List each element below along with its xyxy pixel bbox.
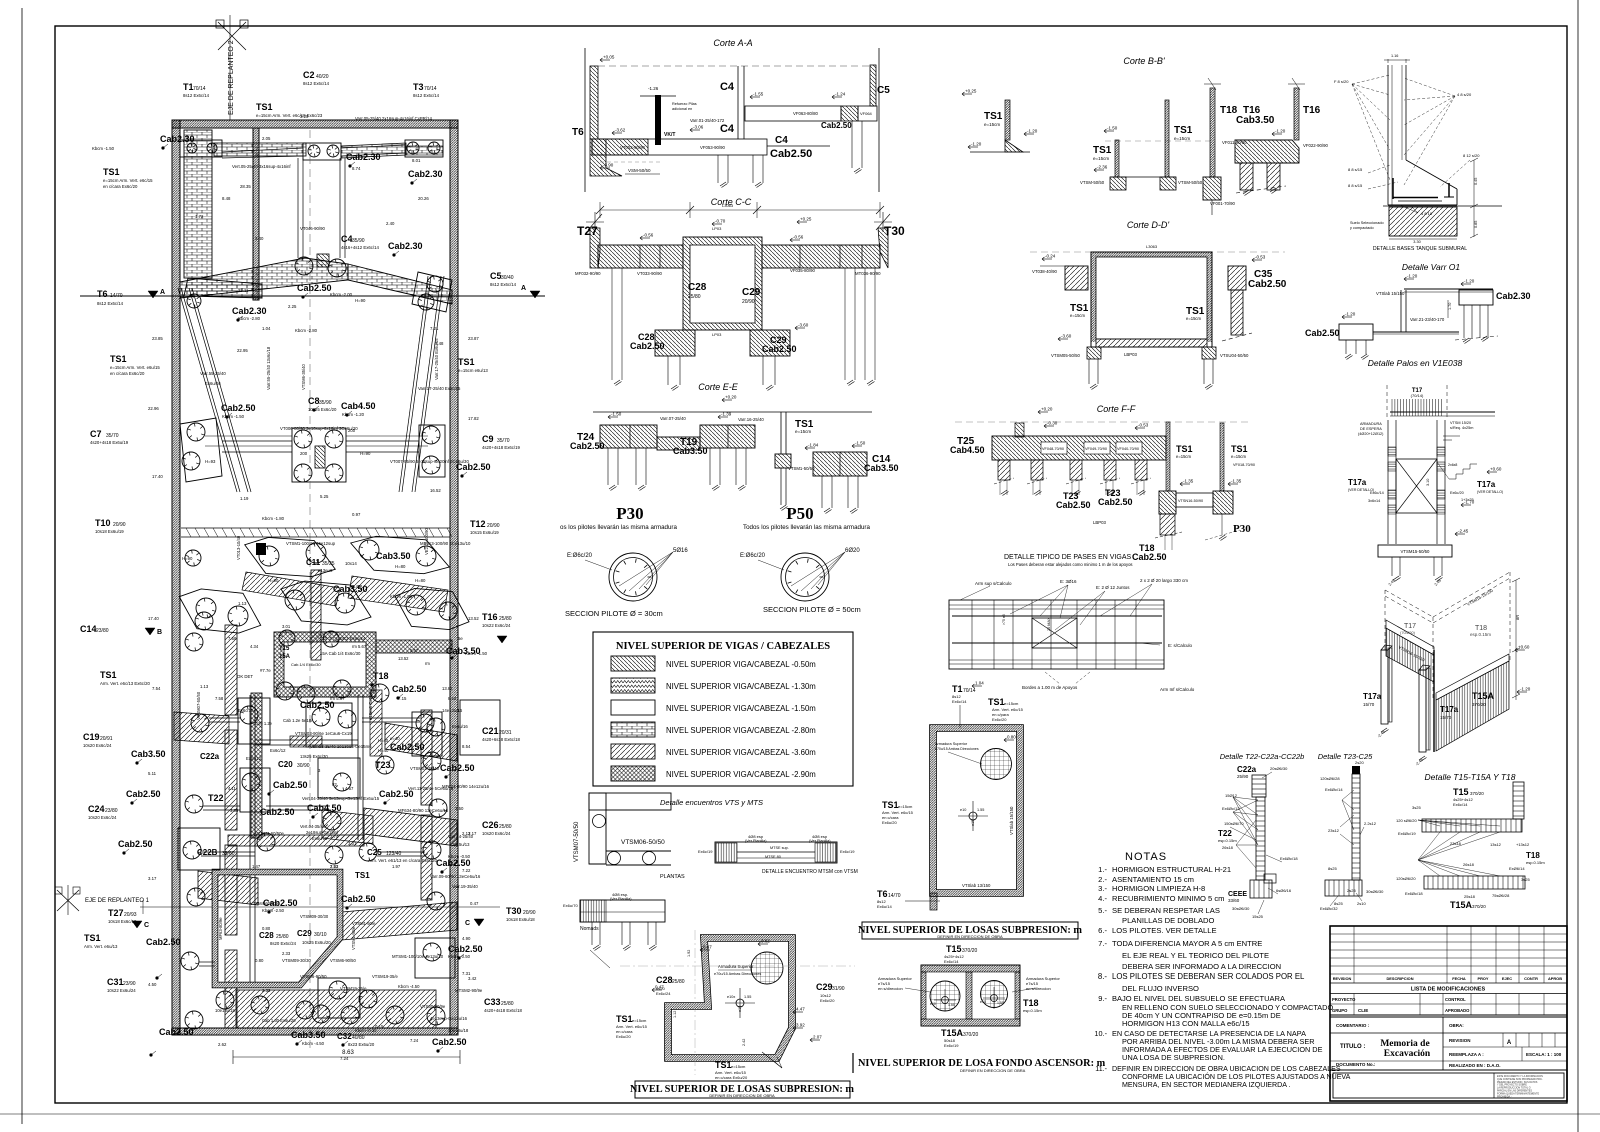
svg-text:(Ver Planilla): (Ver Planilla) [809,839,831,843]
svg-text:-0.56: -0.56 [643,233,654,238]
svg-text:os los pilotes llevarán las mi: os los pilotes llevarán las misma armadu… [560,524,677,531]
svg-text:e15: e15 [971,820,975,826]
svg-text:MT036-90/90: MT036-90/90 [855,271,881,276]
svg-text:L3063: L3063 [722,203,734,208]
svg-text:8.54: 8.54 [448,696,457,701]
svg-text:15Ø12: 15Ø12 [1225,793,1238,798]
svg-text:Ex6c/20: Ex6c/20 [820,998,835,1003]
svg-text:T27: T27 [108,908,124,918]
svg-text:C4: C4 [720,123,735,135]
svg-text:VTSM19-35/e: VTSM19-35/e [340,986,367,991]
svg-text:Arm Inf s/Calculo: Arm Inf s/Calculo [1160,687,1195,692]
svg-text:T16: T16 [482,612,498,622]
svg-text:4s20+4s18 Ex6c/19: 4s20+4s18 Ex6c/19 [482,445,520,450]
svg-text:e13eu6: e13eu6 [318,568,333,573]
svg-text:-0.53: -0.53 [1255,255,1266,260]
svg-text:2.2s12: 2.2s12 [1364,821,1377,826]
svg-text:MTSM1-100/10e 4e13u/10: MTSM1-100/10e 4e13u/10 [392,954,444,959]
svg-text:-1.55: -1.55 [753,92,764,97]
svg-text:35/70: 35/70 [497,438,510,444]
svg-text:LOS PILOTES. VER DETALLE: LOS PILOTES. VER DETALLE [1112,926,1217,935]
svg-text:Varr.55-25/40 13x6c/18: Varr.55-25/40 13x6c/18 [266,346,271,390]
svg-text:EJEC: EJEC [1502,976,1512,981]
svg-text:15A Cab 1/4 Ex6c/30: 15A Cab 1/4 Ex6c/30 [320,651,361,656]
svg-text:22.96: 22.96 [148,406,159,411]
svg-text:DEFINIR EN DIRECCION DE OB: DEFINIR EN DIRECCION DE OBRA UBICACION D… [1112,1065,1341,1073]
svg-text:Cab4.50: Cab4.50 [950,445,985,455]
svg-text:Ex6Øc/19: Ex6Øc/19 [1398,831,1416,836]
svg-text:8 8 s/15: 8 8 s/15 [1348,167,1363,172]
svg-text:-1.20: -1.20 [1520,687,1531,692]
svg-text:1.55: 1.55 [744,995,751,999]
svg-text:5.11: 5.11 [148,771,157,776]
svg-text:T16: T16 [1303,105,1321,116]
svg-text:VTSM07-50/50: VTSM07-50/50 [574,821,580,862]
svg-text:Varr.33-35/4e 1e13eu6-Ge15m6: Varr.33-35/4e 1e13eu6-Ge15m6 [310,744,372,749]
svg-text:Varr.05-25/40 2x16sup-4x16inf: Varr.05-25/40 2x16sup-4x16inf CxPR/14 [355,116,432,121]
svg-text:T15: T15 [1453,787,1469,797]
svg-text:2.42: 2.42 [742,1039,746,1046]
svg-text:TS1: TS1 [1231,444,1248,454]
svg-text:2.51: 2.51 [330,864,339,869]
svg-text:4.50: 4.50 [148,982,157,987]
svg-text:VF022-90/90: VF022-90/90 [1303,143,1328,148]
svg-text:2s20: 2s20 [1355,760,1364,765]
svg-text:-1.20: -1.20 [1275,129,1286,134]
svg-text:VTSM6-35/40: VTSM6-35/40 [301,363,306,390]
svg-text:Cab 1.2e 5e18i: Cab 1.2e 5e18i [283,718,312,723]
svg-text:2.33: 2.33 [282,951,291,956]
svg-text:Nomads: Nomads [580,926,599,932]
svg-text:-3.06: -3.06 [693,125,704,130]
svg-text:PROHIBIDA.-: PROHIBIDA.- [1497,1095,1512,1098]
svg-text:#7.7e: #7.7e [260,668,271,673]
svg-text:VF018-70/90: VF018-70/90 [1233,463,1255,467]
svg-text:T23: T23 [375,760,391,770]
svg-text:23.11: 23.11 [238,288,249,293]
svg-text:Ex6c/14: Ex6c/14 [952,699,967,704]
svg-text:+0.20: +0.20 [1041,407,1053,412]
svg-text:Ex6u/20: Ex6u/20 [882,820,897,825]
svg-text:Kbcm -2.80: Kbcm -2.80 [295,328,318,333]
svg-text:T15A: T15A [1472,691,1495,701]
svg-text:DEL FLUJO INVERSO: DEL FLUJO INVERSO [1122,984,1199,993]
svg-text:Ex6Øc/32: Ex6Øc/32 [1320,906,1338,911]
svg-text:Ex6c/12: Ex6c/12 [246,756,262,761]
svg-text:(VER DETALLO): (VER DETALLO) [1477,490,1503,494]
svg-text:e70u/15 Ambas Direcciones: e70u/15 Ambas Direcciones [714,972,761,976]
svg-text:25/80: 25/80 [499,824,512,830]
svg-text:REVISION: REVISION [1333,976,1352,981]
svg-text:TS1: TS1 [100,670,117,680]
svg-text:2.40: 2.40 [386,221,395,226]
svg-text:C4: C4 [341,234,353,244]
svg-text:C22a: C22a [1237,765,1257,774]
svg-text:13.52: 13.52 [468,616,479,621]
svg-text:A: A [1507,1040,1512,1046]
svg-text:-1.26: -1.26 [648,86,659,91]
svg-text:2.-: 2.- [1098,875,1107,884]
svg-text:VT007-95/90 5e18sup-Ge20inf 3C: VT007-95/90 5e18sup-Ge20inf 3Ce6u/30 [390,459,469,464]
svg-text:E:Ø6c/20: E:Ø6c/20 [740,553,766,559]
svg-text:DEFINIR EN DIRECCION DE OB: DEFINIR EN DIRECCION DE OBRA [960,1068,1026,1073]
svg-text:15/70: 15/70 [1363,702,1375,707]
svg-text:7.-: 7.- [1098,939,1107,948]
svg-text:Detalle encuentros VTS y MTS: Detalle encuentros VTS y MTS [660,798,763,807]
svg-text:Ex6Øc/14: Ex6Øc/14 [1325,787,1343,792]
svg-text:EL EJE REAL Y EL TEORICO: EL EJE REAL Y EL TEORICO DEL PILOTE [1122,951,1269,960]
svg-text:10s15 Ex6u/19: 10s15 Ex6u/19 [470,530,499,535]
svg-text:10.-: 10.- [1094,1029,1107,1038]
svg-text:Kbcm -1.50: Kbcm -1.50 [92,146,115,151]
svg-text:-3.60: -3.60 [1061,334,1072,339]
svg-text:5Ø16: 5Ø16 [673,548,688,554]
svg-text:VTSM-50/50: VTSM-50/50 [1080,180,1105,185]
svg-text:C: C [465,920,470,927]
svg-text:4.-: 4.- [1098,894,1107,903]
svg-text:A: A [160,289,165,296]
svg-text:-2.36: -2.36 [1097,165,1108,170]
svg-text:Cab2.50: Cab2.50 [630,341,665,351]
svg-text:T17a: T17a [1477,480,1496,489]
svg-text:0.47: 0.47 [703,945,712,950]
svg-text:3.01: 3.01 [282,624,291,629]
svg-text:B: B [157,629,162,636]
svg-text:23s12: 23s12 [1328,828,1340,833]
svg-text:T15A: T15A [941,1028,964,1038]
svg-text:Cab2.50: Cab2.50 [1056,500,1091,510]
svg-text:4s16+4s12 Ex6c/14: 4s16+4s12 Ex6c/14 [341,245,379,250]
svg-text:10s22 Ex6u/24: 10s22 Ex6u/24 [107,988,136,993]
svg-text:MF624-80/90 14e12u/16: MF624-80/90 14e12u/16 [442,784,490,789]
svg-text:Ex6u/16: Ex6u/16 [452,724,468,729]
svg-text:3.20: 3.20 [300,114,309,119]
svg-text:-0.24: -0.24 [1045,254,1056,259]
svg-text:VTSM1-50/e: VTSM1-50/e [351,926,356,950]
svg-text:C7: C7 [90,429,102,439]
svg-text:SE DEBERAN RESPETAR LAS: SE DEBERAN RESPETAR LAS [1112,906,1220,915]
svg-text:VTSM15-50/50: VTSM15-50/50 [1401,549,1431,554]
svg-text:C11: C11 [306,558,321,567]
svg-text:ExØ6/14: ExØ6/14 [1509,866,1525,871]
svg-text:30sØ6/30: 30sØ6/30 [1232,906,1250,911]
svg-text:-1.20: -1.20 [1407,274,1418,279]
svg-text:en s/direccion: en s/direccion [1026,986,1051,991]
svg-text:DEFINIR EN DIRECCION DE OB: DEFINIR EN DIRECCION DE OBRA [709,1093,775,1098]
svg-text:+0.60: +0.60 [1490,467,1502,472]
svg-text:COMENTARIO :: COMENTARIO : [1336,1023,1370,1028]
svg-text:Kbcm -1.50: Kbcm -1.50 [465,651,488,656]
svg-text:8.-: 8.- [1098,972,1108,981]
svg-text:FECHA: FECHA [1452,976,1466,981]
svg-text:1.-: 1.- [1098,865,1107,874]
svg-text:Kbcm -2.00: Kbcm -2.00 [330,292,353,297]
svg-text:L3063: L3063 [1146,244,1158,249]
svg-text:T30: T30 [506,906,522,916]
svg-text:UNA LOSA DE SUBPRESION.: UNA LOSA DE SUBPRESION. [1122,1053,1225,1062]
svg-text:-1.20: -1.20 [1027,129,1038,134]
svg-text:Corte F-F: Corte F-F [1097,404,1136,414]
svg-text:T17a: T17a [1348,478,1367,487]
svg-text:Varr.14-25/40: Varr.14-25/40 [448,834,474,839]
svg-text:T15 3/7.1/2/C3 Ex6u/14: T15 3/7.1/2/C3 Ex6u/14 [320,636,366,641]
svg-text:T15: T15 [279,646,290,652]
svg-text:2s25: 2s25 [1347,888,1356,893]
svg-text:NIVEL SUPERIOR DE VIGAS /: NIVEL SUPERIOR DE VIGAS / CABEZALES [616,641,830,652]
svg-text:10s18 Ex6u/19: 10s18 Ex6u/19 [95,529,124,534]
svg-text:CONFORME LA UBICACIÓN DE L: CONFORME LA UBICACIÓN DE LOS PILOTES AJU… [1122,1072,1351,1081]
svg-text:VTSM09-30/30: VTSM09-30/30 [282,958,312,963]
svg-text:0.80: 0.80 [1007,735,1016,740]
svg-text:Ex6c/20: Ex6c/20 [992,717,1007,722]
svg-text:Vert.04-35/40: Vert.04-35/40 [300,824,326,829]
svg-text:Corte A-A: Corte A-A [713,38,752,48]
svg-text:370/20: 370/20 [1470,791,1484,796]
svg-text:-1.84: -1.84 [808,443,819,448]
svg-text:TS1: TS1 [616,1014,633,1024]
svg-text:15/70: 15/70 [1440,715,1452,720]
svg-text:s/Req. 4x25m: s/Req. 4x25m [1450,426,1473,430]
svg-text:6.-: 6.- [1098,926,1107,935]
svg-text:7.22: 7.22 [462,868,471,873]
svg-text:Corte E-E: Corte E-E [698,382,739,392]
svg-text:0.45: 0.45 [1474,178,1478,185]
svg-text:Kbcm -0.30: Kbcm -0.30 [355,1028,377,1033]
svg-text:Bordes a 1.00 m de Apoyos: Bordes a 1.00 m de Apoyos [1022,685,1078,690]
svg-text:3s25: 3s25 [1521,877,1530,882]
svg-text:Varr.19-35/40: Varr.19-35/40 [452,884,478,889]
svg-text:20.26: 20.26 [418,196,429,201]
svg-text:(Ver Planilla): (Ver Planilla) [610,897,632,901]
svg-text:35/70: 35/70 [106,433,119,439]
svg-text:Cab2.50: Cab2.50 [273,780,308,790]
svg-text:e=15cm e6u/13: e=15cm e6u/13 [458,368,488,373]
svg-text:20/90: 20/90 [742,299,755,305]
svg-text:10s20 Ex6c/24: 10s20 Ex6c/24 [83,743,112,748]
svg-text:TS1: TS1 [110,354,127,364]
svg-text:Kbcm -4.50: Kbcm -4.50 [398,984,420,989]
svg-text:VTSM05-50/50: VTSM05-50/50 [1051,353,1081,358]
svg-text:RECUBRIMIENTO MINIMO 5 cm: RECUBRIMIENTO MINIMO 5 cm [1112,894,1225,903]
svg-text:25/80: 25/80 [672,979,685,985]
svg-text:C26: C26 [482,820,499,830]
svg-text:-3.62: -3.62 [615,128,626,133]
svg-text:3.50: 3.50 [455,806,464,811]
svg-text:VTSlab 15/150: VTSlab 15/150 [1009,806,1014,835]
svg-text:2.07: 2.07 [813,1035,822,1040]
svg-text:VF040-70/90: VF040-70/90 [1117,447,1139,451]
svg-text:25s18: 25s18 [1464,894,1476,899]
svg-text:8s12 Ex6c/14: 8s12 Ex6c/14 [413,93,440,98]
svg-text:Cab2.50: Cab2.50 [448,944,483,954]
svg-text:EJE DE REPLANTEO 1: EJE DE REPLANTEO 1 [85,898,150,904]
svg-text:-0.30: -0.30 [1047,421,1058,426]
svg-text:3.10: 3.10 [1426,479,1430,486]
svg-text:8 12 s/20: 8 12 s/20 [1463,153,1480,158]
svg-text:Cab2.50: Cab2.50 [440,763,475,773]
svg-text:Cab3.50: Cab3.50 [673,446,708,456]
svg-text:370/20: 370/20 [962,948,978,954]
svg-text:VF049-70/90: VF049-70/90 [1085,447,1107,451]
svg-text:23/80: 23/80 [105,808,118,814]
svg-text:LOS PILOTES SE DEBERAN SER: LOS PILOTES SE DEBERAN SER COLADOS POR E… [1112,972,1305,981]
svg-text:1.92: 1.92 [687,950,691,957]
svg-text:VT038-40/90: VT038-40/90 [1032,269,1057,274]
svg-text:Cab2.30: Cab2.30 [346,152,381,162]
svg-text:Cab2.50: Cab2.50 [221,403,256,413]
svg-text:Cab2.50: Cab2.50 [260,807,295,817]
svg-text:0.97: 0.97 [352,512,361,517]
svg-text:C29: C29 [816,982,833,992]
svg-text:TITULO :: TITULO : [1340,1044,1365,1050]
svg-text:T17a: T17a [1440,705,1459,714]
svg-text:150sØ6/70: 150sØ6/70 [1224,821,1244,826]
svg-text:4.34: 4.34 [250,644,259,649]
svg-text:8R: 8R [1515,615,1520,620]
svg-text:Varr.07-25/40: Varr.07-25/40 [660,416,686,421]
svg-text:20/93: 20/93 [124,912,137,918]
svg-text:NIVEL SUPERIOR VIGA/CABEZAL: NIVEL SUPERIOR VIGA/CABEZAL -1.30m [666,682,816,691]
svg-text:Varr.09-60/90 13eCe6u/16: Varr.09-60/90 13eCe6u/16 [430,874,481,879]
svg-text:1.70: 1.70 [1448,303,1452,310]
svg-text:HORMIGON LIMPIEZA H-8: HORMIGON LIMPIEZA H-8 [1112,884,1205,893]
svg-text:T15A: T15A [1450,900,1473,910]
svg-text:TS1: TS1 [882,800,899,810]
svg-text:Varr.17-25/40 Ex6u/15: Varr.17-25/40 Ex6u/15 [434,338,439,380]
svg-text:2s10: 2s10 [1357,901,1366,906]
svg-text:8.74: 8.74 [352,166,361,171]
svg-text:rm: rm [425,661,430,666]
svg-text:Cab2.50: Cab2.50 [770,148,812,160]
svg-text:T6: T6 [97,289,108,299]
svg-text:-1.24: -1.24 [835,92,846,97]
svg-text:e10: e10 [930,1002,936,1006]
svg-text:28.35: 28.35 [240,184,251,189]
svg-text:DEFINIR EN DIRECCION DE OB: DEFINIR EN DIRECCION DE OBRA [937,934,1003,939]
svg-text:120sØ6/20: 120sØ6/20 [1396,876,1416,881]
svg-text:10s18 Ex6u/18: 10s18 Ex6u/18 [506,917,535,922]
svg-text:C5: C5 [490,271,502,281]
svg-text:SECCION PILOTE Ø = 50cm: SECCION PILOTE Ø = 50cm [763,605,861,614]
svg-text:Cab2.50: Cab2.50 [341,894,376,904]
svg-text:TS1: TS1 [715,1060,732,1070]
svg-text:+0.60: +0.60 [1518,645,1530,650]
svg-text:T17a: T17a [1363,692,1382,701]
svg-text:NIVEL SUPERIOR VIGA/CABEZAL: NIVEL SUPERIOR VIGA/CABEZAL -3.60m [666,748,816,757]
svg-text:APROB: APROB [1548,976,1562,981]
svg-text:esp.0.15m: esp.0.15m [1218,838,1237,843]
svg-text:Suelo Seleccionado: Suelo Seleccionado [1350,221,1384,225]
svg-text:C29: C29 [742,287,761,298]
svg-text:Arm. Vert. e6u/13: Arm. Vert. e6u/13 [84,944,118,949]
svg-text:TS1: TS1 [355,871,370,880]
svg-text:Cab2.50: Cab2.50 [762,344,797,354]
svg-text:adicional en: adicional en [672,107,692,111]
svg-text:14/70: 14/70 [110,293,123,299]
svg-text:Cab3.50: Cab3.50 [376,551,411,561]
svg-text:70/14: 70/14 [193,86,206,92]
svg-text:Cab2.50: Cab2.50 [1305,328,1340,338]
svg-text:DETALLE ENCUENTRO MTSM con: DETALLE ENCUENTRO MTSM con VTSM [762,869,858,875]
svg-text:VTSM4-60/50e: VTSM4-60/50e [255,831,285,836]
svg-text:H=90: H=90 [355,298,366,303]
svg-text:11.-: 11.- [1095,1065,1107,1073]
svg-text:T12: T12 [470,519,486,529]
svg-text:>75 e5: >75 e5 [1002,614,1006,625]
svg-text:ASENTAMIENTO 15 cm: ASENTAMIENTO 15 cm [1112,875,1194,884]
svg-text:Cab2.50: Cab2.50 [392,684,427,694]
svg-text:20/90: 20/90 [113,522,126,528]
svg-text:3.-: 3.- [1098,884,1107,893]
svg-text:VF035-80/90: VF035-80/90 [790,268,815,273]
svg-text:Armadura Superior: Armadura Superior [718,964,754,969]
svg-text:TODA DIFERENCIA MAYOR A 5: TODA DIFERENCIA MAYOR A 5 cm ENTRE [1112,939,1262,948]
svg-text:0.80: 0.80 [262,926,271,931]
svg-text:Detalle Palos en V1E038: Detalle Palos en V1E038 [1368,358,1463,368]
svg-text:GRUPO: GRUPO [1332,1008,1348,1013]
svg-text:-1.70: -1.70 [1464,500,1475,505]
svg-text:VTSM09-30/30: VTSM09-30/30 [300,914,329,919]
svg-text:5.25: 5.25 [320,494,329,499]
svg-text:TS1: TS1 [1176,444,1193,454]
svg-text:MTSM2-90/9e: MTSM2-90/9e [455,988,483,993]
svg-text:VTSU04-50/50: VTSU04-50/50 [1220,353,1249,358]
svg-text:Detalle Varr O1: Detalle Varr O1 [1402,262,1461,272]
svg-text:Cab2.30: Cab2.30 [1496,291,1531,301]
svg-text:VF048-70/90: VF048-70/90 [1042,447,1064,451]
svg-text:TS1: TS1 [1174,125,1193,136]
svg-text:T22: T22 [208,793,224,803]
svg-text:3.92: 3.92 [796,1023,805,1028]
svg-text:Detalle T23-C25: Detalle T23-C25 [1318,752,1373,761]
svg-text:(Ver Planilla): (Ver Planilla) [745,839,767,843]
svg-text:C29: C29 [297,929,312,938]
svg-text:C20 1.2e: C20 1.2e [255,721,273,726]
svg-text:VT013-10/40: VT013-10/40 [236,535,241,560]
svg-text:e=15cm Arm. Vert. e6u/15: e=15cm Arm. Vert. e6u/15 [110,365,160,370]
svg-text:Cab4.50: Cab4.50 [341,401,376,411]
svg-text:1.55: 1.55 [977,808,984,812]
svg-text:10s25 Ex6u/20: 10s25 Ex6u/20 [302,940,331,945]
svg-text:4.47: 4.47 [796,1007,805,1012]
svg-text:Cab2.50: Cab2.50 [821,121,852,130]
svg-text:+0.25: +0.25 [965,89,977,94]
svg-text:T18: T18 [1526,851,1540,860]
svg-text:Todos los pilotes llevarán las: Todos los pilotes llevarán las misma arm… [743,524,870,531]
svg-text:rm 5.67: rm 5.67 [352,644,367,649]
svg-text:1.72: 1.72 [195,214,204,219]
svg-text:Kbcm -0.50: Kbcm -0.50 [448,854,471,859]
svg-text:Cab2.50: Cab2.50 [297,283,332,293]
svg-text:VTSM1-50/e: VTSM1-50/e [352,921,376,926]
svg-text:Cab2.50: Cab2.50 [118,839,153,849]
svg-text:-1.50: -1.50 [1107,126,1118,131]
svg-text:esp.0.15m: esp.0.15m [1023,1008,1042,1013]
svg-text:10s18 Ex6c/18: 10s18 Ex6c/18 [108,919,137,924]
svg-text:6sØ6/16: 6sØ6/16 [1276,888,1292,893]
svg-text:MF63-80/9e: MF63-80/9e [218,917,223,940]
svg-text:(70/14): (70/14) [1411,393,1424,398]
svg-text:en c/cara Ex6c/20: en c/cara Ex6c/20 [103,184,138,189]
svg-text:3x6x14: 3x6x14 [1368,499,1380,503]
svg-text:Varr.16-25/40: Varr.16-25/40 [738,417,764,422]
svg-text:1.19: 1.19 [240,496,249,501]
svg-text:31/90: 31/90 [832,986,845,992]
svg-text:DESCRIPCION: DESCRIPCION [1386,976,1413,981]
svg-text:T1: T1 [183,82,194,92]
svg-text:e=15cm: e=15cm [1176,454,1192,459]
svg-text:Arm. Vert. e6c/13 Ex6c/20: Arm. Vert. e6c/13 Ex6c/20 [100,681,151,686]
